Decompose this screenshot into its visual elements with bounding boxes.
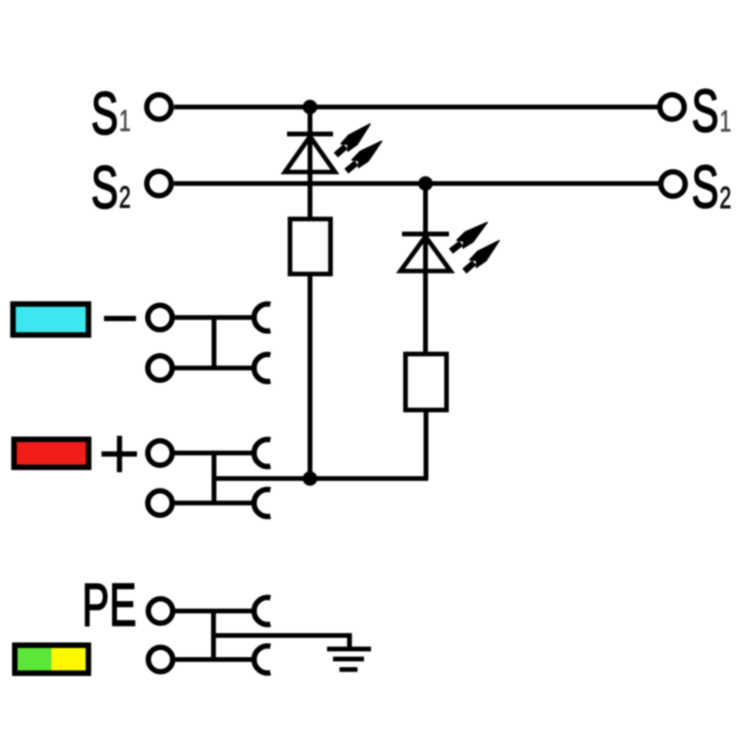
- label S2 left: [91, 154, 131, 221]
- plus sign: [102, 436, 138, 472]
- contact socket minus top: [254, 304, 270, 331]
- wire vertical branch 1 upper: [308, 107, 313, 221]
- contact socket PE bottom: [254, 646, 270, 673]
- contact socket plus top: [254, 440, 270, 467]
- terminal circle plus bottom: [148, 491, 172, 515]
- wire PE to earth: [214, 636, 350, 650]
- wire minus bottom: [174, 366, 253, 371]
- node junction on S1 wire: [303, 100, 318, 115]
- svg-text:PE: PE: [82, 572, 136, 639]
- LED D2 light arrow a: [447, 218, 491, 256]
- terminal circle plus top: [148, 441, 172, 465]
- green-yellow marker box: [15, 645, 89, 673]
- LED D1 light arrow b: [342, 137, 386, 176]
- earth ground symbol: [327, 649, 371, 670]
- svg-text:1: 1: [720, 103, 732, 138]
- terminal circle PE bottom: [148, 647, 172, 671]
- terminal circle S2 right: [661, 172, 685, 196]
- LED D1 cathode bar: [287, 132, 333, 137]
- label S2 right: [692, 154, 732, 221]
- wire minus top: [174, 315, 253, 320]
- LED D2 cathode bar: [402, 232, 449, 237]
- LED D2 triangle: [401, 237, 451, 272]
- terminal circle minus top: [148, 305, 172, 329]
- cyan marker box: [13, 304, 89, 335]
- contact socket plus bottom: [254, 490, 270, 517]
- wire minus vertical bar: [212, 318, 217, 369]
- svg-text:S: S: [692, 154, 719, 221]
- svg-text:1: 1: [119, 103, 131, 138]
- node junction on S2 wire: [418, 176, 433, 191]
- wire vertical branch 1 lower: [308, 274, 313, 479]
- terminal circle S2 left: [147, 171, 171, 195]
- svg-text:S: S: [91, 80, 118, 147]
- LED D1 light arrow a: [332, 120, 375, 160]
- wire horizontal common y=478.5: [214, 476, 428, 481]
- resistor R2: [406, 354, 447, 410]
- terminal circle minus bottom: [148, 356, 172, 380]
- wire PE bottom: [174, 657, 253, 662]
- wire plus vertical bar: [212, 453, 217, 503]
- red marker box: [14, 439, 89, 467]
- LED D2 light arrow b: [460, 236, 503, 276]
- svg-text:S: S: [692, 78, 719, 145]
- wire PE top: [174, 609, 253, 614]
- label S1 left: [91, 80, 131, 147]
- terminal circle PE top: [148, 599, 172, 623]
- wire PE vertical bar: [211, 611, 216, 660]
- minus sign: [104, 316, 136, 321]
- svg-text:2: 2: [119, 179, 131, 214]
- svg-text:2: 2: [720, 180, 732, 215]
- wire plus bottom: [174, 501, 253, 506]
- terminal circle S1 right: [660, 95, 684, 119]
- wire vertical branch 2 lower: [424, 410, 429, 479]
- wire S2 horizontal: [174, 181, 660, 186]
- contact socket PE top: [254, 598, 270, 625]
- resistor R1: [290, 219, 331, 274]
- node junction on common wire: [303, 471, 318, 486]
- terminal circle S1 left: [147, 95, 171, 119]
- wire plus top: [174, 451, 253, 456]
- label S1 right: [692, 78, 732, 145]
- wire vertical branch 2 upper: [423, 184, 428, 357]
- svg-text:S: S: [91, 154, 118, 221]
- LED D1 triangle: [285, 137, 335, 173]
- contact socket minus bottom: [254, 355, 270, 382]
- wire S1 horizontal: [174, 105, 659, 110]
